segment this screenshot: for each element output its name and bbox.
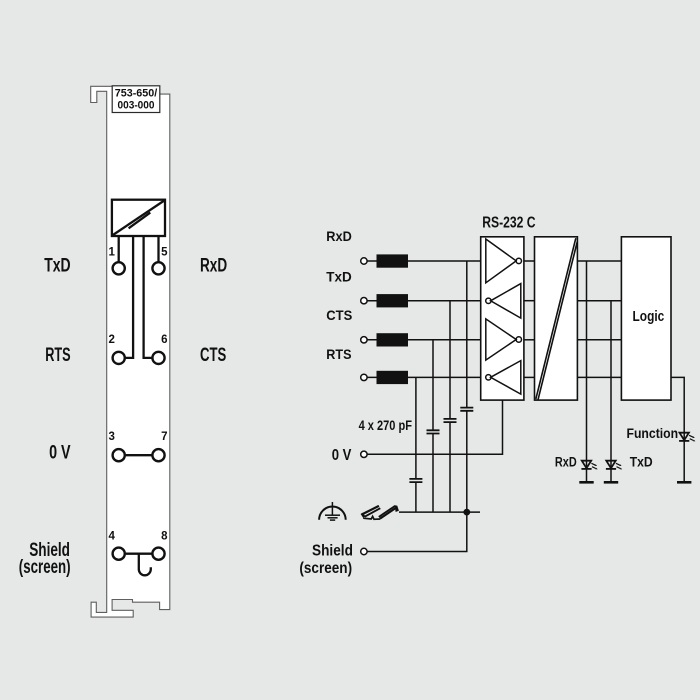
- wire buffer to isolation row1: [524, 260, 535, 262]
- isolation box (galvanic isolation): [535, 237, 578, 400]
- svg-text:(screen): (screen): [19, 557, 71, 578]
- pin 1: [113, 262, 125, 274]
- terminal TxD: [361, 298, 367, 304]
- svg-text:0 V: 0 V: [332, 447, 352, 464]
- resistors (black): [377, 254, 409, 384]
- module left labels: [19, 255, 71, 578]
- terminal 0V: [361, 451, 367, 457]
- terminal Shield: [361, 548, 367, 554]
- wire RxD row: [367, 260, 481, 262]
- wire pin5 stub: [157, 236, 159, 262]
- svg-text:0 V: 0 V: [49, 442, 71, 463]
- tap vertical RTS: [415, 377, 417, 512]
- svg-text:6: 6: [161, 334, 167, 346]
- functional earth symbol: [319, 502, 346, 520]
- svg-text:003-000: 003-000: [118, 99, 155, 111]
- pin 3: [113, 449, 125, 461]
- svg-text:2: 2: [108, 334, 114, 346]
- pin 5: [152, 262, 164, 274]
- tap vertical CTS: [432, 340, 434, 512]
- terminal RTS: [361, 374, 367, 380]
- tap vertical RxD: [466, 261, 468, 512]
- 0V wire: [367, 400, 502, 454]
- wire isolation to logic row2: [577, 300, 621, 302]
- buffer 4 (RTS, points left): [486, 361, 521, 395]
- resistor RxD: [377, 254, 409, 267]
- wire buffer to isolation row3: [524, 339, 535, 341]
- capacitor C2 (TxD tap): [444, 419, 457, 422]
- DIN rail clamp symbol: [361, 505, 399, 519]
- LED TxD: [606, 461, 616, 469]
- svg-text:CTS: CTS: [200, 345, 226, 366]
- tap verticals with capacitors: [416, 261, 467, 512]
- svg-text:Shield: Shield: [312, 542, 353, 559]
- LED terminal bars: [579, 481, 691, 484]
- label box 753-650/003-000: [112, 86, 160, 113]
- pin 4: [113, 548, 125, 560]
- wire isolation to logic row1: [577, 260, 621, 262]
- svg-text:5: 5: [161, 247, 168, 259]
- wire pins 3-7: [126, 454, 152, 456]
- pin 8: [152, 548, 164, 560]
- terminal circles: [361, 258, 367, 555]
- wire buffer to isolation row4: [524, 376, 535, 378]
- LED vertical RxD: [586, 261, 588, 482]
- svg-text:TxD: TxD: [630, 455, 653, 470]
- svg-text:RxD: RxD: [326, 228, 352, 244]
- resistor RTS: [377, 371, 409, 384]
- svg-text:4: 4: [108, 530, 115, 542]
- buffer 2 (TxD, points left): [486, 284, 521, 319]
- svg-text:RTS: RTS: [326, 346, 351, 362]
- capacitor C3 (CTS tap): [427, 430, 440, 433]
- wire to pin2: [126, 236, 133, 358]
- svg-text:1: 1: [108, 247, 115, 259]
- shield wire: [367, 512, 467, 551]
- svg-text:7: 7: [161, 431, 167, 443]
- svg-text:CTS: CTS: [326, 307, 352, 323]
- LED vertical TxD: [610, 301, 612, 483]
- bar RxD LED: [579, 481, 593, 484]
- terminal CTS: [361, 337, 367, 343]
- buffer 1 (RxD, points right): [486, 239, 522, 283]
- bar TxD LED: [604, 481, 618, 484]
- wire isolation to logic row3: [577, 339, 621, 341]
- svg-text:RxD: RxD: [200, 255, 227, 276]
- pin 2: [113, 352, 125, 364]
- svg-text:TxD: TxD: [326, 268, 352, 284]
- wire TxD row: [367, 300, 481, 302]
- svg-text:RxD: RxD: [555, 455, 577, 470]
- junction dot: [463, 509, 470, 516]
- resistor TxD: [377, 294, 409, 307]
- LED Function: [679, 433, 689, 441]
- terminal RxD: [361, 258, 367, 264]
- svg-text:Logic: Logic: [633, 308, 665, 325]
- wire to pin6: [144, 236, 152, 358]
- buffer 3 (CTS, points right): [486, 319, 522, 360]
- Function wire: [671, 377, 684, 482]
- tap vertical TxD: [449, 301, 451, 512]
- RS-232 buffer box U1: [481, 237, 524, 400]
- svg-text:4 x 270 pF: 4 x 270 pF: [359, 417, 413, 433]
- row wires: [367, 261, 621, 377]
- svg-text:RS-232 C: RS-232 C: [482, 215, 535, 232]
- wire isolation to logic row4: [577, 376, 621, 378]
- module right labels: [200, 255, 227, 366]
- module internal wires: [119, 236, 159, 575]
- wire pins 4-8: [126, 553, 152, 555]
- pin circles: [113, 262, 165, 560]
- svg-text:TxD: TxD: [44, 255, 70, 276]
- capacitor C4 (RTS tap): [409, 479, 422, 482]
- pin 7: [152, 449, 164, 461]
- shield bus: [399, 511, 480, 513]
- wire buffer to isolation row2: [524, 300, 535, 302]
- LED RxD: [581, 461, 591, 469]
- svg-text:(screen): (screen): [299, 560, 352, 577]
- wire pin1 stub: [118, 236, 120, 262]
- wire CTS row: [367, 339, 481, 341]
- pin numbers: [108, 247, 168, 543]
- svg-text:3: 3: [108, 431, 114, 443]
- Logic box: [621, 237, 671, 400]
- svg-text:753-650/: 753-650/: [115, 88, 158, 100]
- module silhouette (753-650 bus module outline): [91, 86, 170, 617]
- svg-text:RTS: RTS: [45, 345, 70, 366]
- bar Function LED: [677, 481, 691, 484]
- wire RTS row: [367, 376, 481, 378]
- schematic row labels: [326, 228, 352, 362]
- transformer box in module: [112, 200, 165, 236]
- resistor CTS: [377, 333, 409, 346]
- pin 6: [152, 352, 164, 364]
- svg-text:8: 8: [161, 530, 168, 542]
- svg-text:Function: Function: [627, 425, 679, 441]
- shield hook: [139, 554, 151, 576]
- capacitor C1 (RxD tap): [460, 408, 473, 411]
